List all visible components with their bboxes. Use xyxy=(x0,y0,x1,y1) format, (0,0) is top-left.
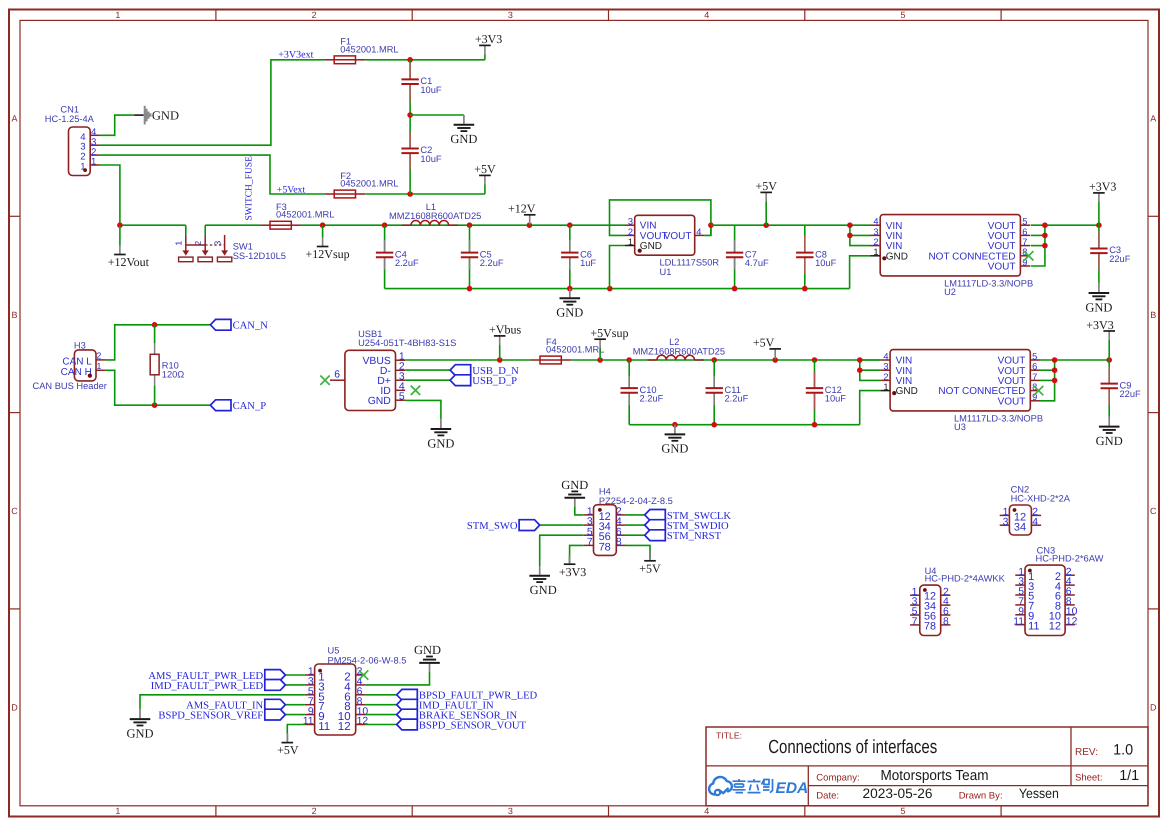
svg-text:SS-12D10L5: SS-12D10L5 xyxy=(233,251,286,261)
svg-text:Company:: Company: xyxy=(816,772,859,783)
svg-text:H3: H3 xyxy=(74,341,86,351)
svg-text:+12V: +12V xyxy=(508,202,536,216)
svg-text:CAN L: CAN L xyxy=(62,356,92,367)
svg-text:10uF: 10uF xyxy=(420,154,442,164)
svg-text:12: 12 xyxy=(1066,616,1078,627)
svg-text:4.7uF: 4.7uF xyxy=(745,258,769,268)
svg-text:U2: U2 xyxy=(944,287,956,297)
svg-text:GND: GND xyxy=(450,132,477,146)
svg-text:Yessen: Yessen xyxy=(1019,786,1059,801)
svg-text:U254-051T-4BH83-S1S: U254-051T-4BH83-S1S xyxy=(358,338,456,348)
svg-text:3: 3 xyxy=(508,806,513,816)
svg-text:78: 78 xyxy=(599,541,611,553)
svg-text:Drawn By:: Drawn By: xyxy=(959,790,1003,801)
svg-text:2: 2 xyxy=(312,806,317,816)
svg-text:EDA: EDA xyxy=(776,780,809,797)
svg-text:1: 1 xyxy=(174,241,184,246)
svg-text:3: 3 xyxy=(508,10,513,20)
svg-text:10uF: 10uF xyxy=(420,85,442,95)
svg-text:GND: GND xyxy=(427,436,454,450)
svg-text:4: 4 xyxy=(883,351,888,361)
svg-text:+5V: +5V xyxy=(755,179,777,193)
svg-text:+12Vsup: +12Vsup xyxy=(306,247,350,261)
svg-text:H4: H4 xyxy=(599,487,611,497)
svg-text:VOUT: VOUT xyxy=(664,231,692,242)
svg-text:+3V3: +3V3 xyxy=(475,32,502,46)
svg-text:Date:: Date: xyxy=(816,790,839,801)
svg-text:BSPD_SENSOR_VOUT: BSPD_SENSOR_VOUT xyxy=(419,720,527,731)
svg-text:120Ω: 120Ω xyxy=(162,369,185,379)
svg-text:+5Vext: +5Vext xyxy=(277,184,306,195)
svg-text:C: C xyxy=(1150,506,1157,516)
svg-text:7: 7 xyxy=(1032,372,1037,382)
svg-text:11: 11 xyxy=(1013,616,1024,627)
svg-text:0452001.MRL: 0452001.MRL xyxy=(546,345,604,355)
svg-text:VOUT: VOUT xyxy=(988,262,1016,273)
svg-text:4: 4 xyxy=(704,806,709,816)
svg-text:REV:: REV: xyxy=(1075,747,1098,758)
svg-text:L2: L2 xyxy=(669,337,679,347)
svg-text:6: 6 xyxy=(1032,362,1037,372)
svg-text:+5V: +5V xyxy=(277,743,299,757)
svg-text:GND: GND xyxy=(886,251,908,262)
svg-text:78: 78 xyxy=(924,620,936,632)
svg-text:GND: GND xyxy=(640,241,662,252)
svg-text:12: 12 xyxy=(1049,620,1061,632)
svg-text:+Vbus: +Vbus xyxy=(489,323,521,337)
svg-text:0452001.MRL: 0452001.MRL xyxy=(340,44,398,54)
svg-text:8: 8 xyxy=(616,537,622,548)
svg-text:2.2uF: 2.2uF xyxy=(480,258,504,268)
svg-text:HC-XHD-2*2A: HC-XHD-2*2A xyxy=(1011,493,1071,503)
svg-text:GND: GND xyxy=(152,109,179,123)
svg-text:2: 2 xyxy=(883,372,888,382)
svg-text:2.2uF: 2.2uF xyxy=(395,258,419,268)
svg-text:2.2uF: 2.2uF xyxy=(725,394,749,404)
svg-text:MMZ1608R600ATD25: MMZ1608R600ATD25 xyxy=(389,211,481,221)
svg-text:+3V3: +3V3 xyxy=(559,565,586,579)
svg-text:0452001.MRL: 0452001.MRL xyxy=(276,210,334,220)
svg-text:GND: GND xyxy=(1085,300,1112,314)
svg-text:+3V3: +3V3 xyxy=(1089,180,1116,194)
svg-text:1.0: 1.0 xyxy=(1113,742,1133,759)
svg-text:GND: GND xyxy=(414,643,441,657)
svg-text:SWITCH_FUSE: SWITCH_FUSE xyxy=(245,156,255,221)
svg-text:TITLE:: TITLE: xyxy=(716,731,742,741)
svg-text:1: 1 xyxy=(97,361,102,371)
svg-text:HC-PHD-2*4AWKK: HC-PHD-2*4AWKK xyxy=(925,573,1006,583)
svg-text:Sheet:: Sheet: xyxy=(1075,772,1102,783)
svg-text:B: B xyxy=(1150,310,1156,320)
svg-text:6: 6 xyxy=(334,370,340,381)
svg-text:12: 12 xyxy=(338,721,351,733)
svg-text:22uF: 22uF xyxy=(1109,254,1131,264)
svg-text:1: 1 xyxy=(628,237,633,247)
svg-text:CAN_N: CAN_N xyxy=(233,321,269,332)
svg-text:USB_D_P: USB_D_P xyxy=(472,376,517,387)
svg-text:2: 2 xyxy=(873,237,878,247)
svg-text:VOUT: VOUT xyxy=(998,396,1026,407)
svg-text:GND: GND xyxy=(661,442,688,456)
svg-text:+5V: +5V xyxy=(639,561,661,575)
svg-text:IMD_FAULT_PWR_LED: IMD_FAULT_PWR_LED xyxy=(151,681,264,692)
svg-text:5: 5 xyxy=(399,392,405,403)
svg-text:CAN H: CAN H xyxy=(61,367,92,378)
svg-text:1: 1 xyxy=(115,806,120,816)
svg-text:4: 4 xyxy=(704,10,709,20)
svg-text:22uF: 22uF xyxy=(1120,389,1142,399)
svg-text:11: 11 xyxy=(1028,620,1039,632)
svg-text:STM_SWO: STM_SWO xyxy=(467,521,518,532)
svg-text:Motorsports Team: Motorsports Team xyxy=(881,768,989,784)
svg-text:10uF: 10uF xyxy=(815,258,837,268)
svg-text:2023-05-26: 2023-05-26 xyxy=(863,786,933,801)
svg-text:1: 1 xyxy=(873,247,878,257)
svg-text:5: 5 xyxy=(900,806,905,816)
svg-text:+5V: +5V xyxy=(753,336,775,350)
svg-text:A: A xyxy=(11,114,17,124)
svg-text:U3: U3 xyxy=(954,422,966,432)
svg-text:GND: GND xyxy=(896,386,918,397)
svg-text:STM_NRST: STM_NRST xyxy=(667,531,722,542)
svg-text:BSPD_SENSOR_VREF: BSPD_SENSOR_VREF xyxy=(158,711,263,722)
svg-text:12: 12 xyxy=(357,716,369,727)
svg-text:5: 5 xyxy=(1022,217,1027,227)
svg-text:3: 3 xyxy=(883,362,888,372)
svg-text:4: 4 xyxy=(1032,517,1038,528)
svg-text:4: 4 xyxy=(873,217,878,227)
svg-text:U5: U5 xyxy=(328,646,340,656)
svg-text:HC-1.25-4A: HC-1.25-4A xyxy=(45,114,95,124)
svg-text:CAN BUS Header: CAN BUS Header xyxy=(33,381,107,391)
svg-text:0452001.MRL: 0452001.MRL xyxy=(340,179,398,189)
svg-text:3: 3 xyxy=(1003,517,1009,528)
svg-text:GND: GND xyxy=(126,726,153,740)
svg-text:11: 11 xyxy=(303,716,314,727)
svg-text:GND: GND xyxy=(530,583,557,597)
svg-text:U1: U1 xyxy=(660,267,672,277)
svg-text:7: 7 xyxy=(1022,237,1027,247)
svg-text:HC-PHD-2*6AW: HC-PHD-2*6AW xyxy=(1036,553,1104,563)
svg-text:2: 2 xyxy=(312,10,317,20)
svg-text:3: 3 xyxy=(873,227,878,237)
svg-text:5: 5 xyxy=(1032,351,1037,361)
svg-text:11: 11 xyxy=(318,721,330,733)
svg-text:34: 34 xyxy=(1014,521,1026,533)
svg-text:+3V3ext: +3V3ext xyxy=(278,49,313,60)
svg-text:MMZ1608R600ATD25: MMZ1608R600ATD25 xyxy=(633,346,725,356)
svg-text:1: 1 xyxy=(115,10,120,20)
svg-text:GND: GND xyxy=(556,306,583,320)
svg-text:+5V: +5V xyxy=(474,162,496,176)
svg-text:B: B xyxy=(11,310,17,320)
svg-text:+5Vsup: +5Vsup xyxy=(590,326,628,340)
svg-text:CAN_P: CAN_P xyxy=(233,401,267,412)
svg-text:LM1117LD-3.3/NOPB: LM1117LD-3.3/NOPB xyxy=(954,414,1043,424)
svg-text:GND: GND xyxy=(1096,434,1123,448)
svg-text:5: 5 xyxy=(900,10,905,20)
svg-text:1uF: 1uF xyxy=(580,258,596,268)
svg-text:A: A xyxy=(1150,114,1156,124)
svg-text:4: 4 xyxy=(696,227,701,237)
svg-text:D: D xyxy=(11,703,18,713)
svg-text:2: 2 xyxy=(628,227,633,237)
svg-text:GND: GND xyxy=(368,396,391,407)
svg-text:D: D xyxy=(1150,703,1157,713)
svg-text:10uF: 10uF xyxy=(825,394,847,404)
svg-text:Connections of interfaces: Connections of interfaces xyxy=(768,737,937,758)
svg-text:1/1: 1/1 xyxy=(1119,768,1139,784)
svg-text:2: 2 xyxy=(97,350,102,360)
svg-text:2.2uF: 2.2uF xyxy=(640,394,664,404)
svg-text:LM1117LD-3.3/NOPB: LM1117LD-3.3/NOPB xyxy=(944,279,1033,289)
svg-text:C: C xyxy=(11,506,18,516)
svg-text:+12Vout: +12Vout xyxy=(108,255,150,269)
svg-text:8: 8 xyxy=(943,617,949,628)
svg-text:3: 3 xyxy=(628,217,633,227)
svg-text:7: 7 xyxy=(587,537,593,548)
svg-text:LDL1117S50R: LDL1117S50R xyxy=(660,258,720,268)
svg-text:6: 6 xyxy=(1022,227,1027,237)
svg-text:1: 1 xyxy=(883,382,888,392)
svg-text:SW1: SW1 xyxy=(233,241,253,251)
svg-text:1: 1 xyxy=(91,157,96,168)
svg-text:GND: GND xyxy=(561,478,588,492)
svg-text:+3V3: +3V3 xyxy=(1086,318,1113,332)
svg-text:7: 7 xyxy=(912,617,918,628)
